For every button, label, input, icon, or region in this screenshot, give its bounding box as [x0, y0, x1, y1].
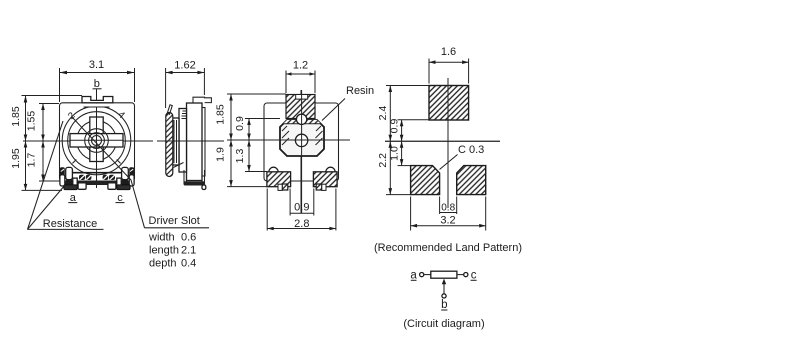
svg-text:0.8: 0.8 [441, 203, 455, 214]
svg-text:1.2: 1.2 [293, 60, 308, 72]
svg-text:3.1: 3.1 [89, 59, 104, 71]
svg-text:1.95: 1.95 [10, 148, 22, 169]
svg-text:1.9: 1.9 [215, 147, 227, 162]
svg-text:(Recommended Land Pattern): (Recommended Land Pattern) [374, 242, 522, 254]
svg-text:1.7: 1.7 [26, 153, 38, 168]
svg-text:1.62: 1.62 [174, 60, 195, 72]
svg-text:2.2: 2.2 [377, 153, 389, 168]
svg-text:2.1: 2.1 [181, 245, 196, 257]
svg-text:depth: depth [149, 258, 177, 270]
svg-text:0.6: 0.6 [181, 232, 196, 244]
svg-text:0.9: 0.9 [234, 116, 246, 131]
svg-text:b: b [94, 78, 100, 90]
svg-text:1.85: 1.85 [215, 104, 227, 125]
svg-text:2.8: 2.8 [294, 218, 309, 230]
svg-text:3.2: 3.2 [440, 214, 455, 226]
svg-text:C 0.3: C 0.3 [458, 144, 484, 156]
svg-text:0.9: 0.9 [389, 119, 401, 134]
svg-text:length: length [149, 245, 179, 257]
svg-text:1.0: 1.0 [389, 146, 401, 161]
svg-text:Resin: Resin [346, 85, 374, 97]
svg-text:Driver Slot: Driver Slot [149, 215, 200, 227]
svg-text:b: b [441, 299, 447, 311]
svg-text:a: a [70, 192, 77, 204]
svg-text:1.85: 1.85 [10, 106, 22, 127]
svg-text:2.4: 2.4 [377, 106, 389, 121]
svg-text:1.3: 1.3 [234, 149, 246, 164]
svg-text:width: width [148, 232, 175, 244]
svg-text:Resistance: Resistance [43, 218, 97, 230]
svg-text:a: a [410, 270, 417, 282]
svg-text:c: c [471, 270, 477, 282]
svg-text:0.4: 0.4 [181, 258, 196, 270]
svg-text:(Circuit diagram): (Circuit diagram) [403, 318, 484, 330]
svg-text:1.6: 1.6 [441, 46, 456, 58]
svg-text:1.55: 1.55 [26, 111, 38, 132]
svg-text:c: c [117, 192, 123, 204]
